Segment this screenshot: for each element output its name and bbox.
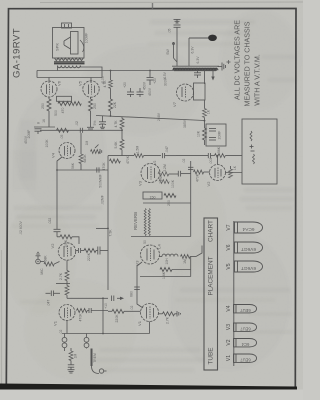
resistor 1M footswitch [69, 348, 78, 365]
svg-text:V3: V3 [226, 324, 232, 330]
wire: long B+ run [37, 70, 217, 72]
svg-text:2.2M: 2.2M [159, 176, 163, 184]
svg-text:.05: .05 [60, 135, 64, 140]
svg-text:268V: 268V [157, 112, 161, 121]
cap 20MF at junction [147, 71, 158, 86]
svg-text:450V: 450V [148, 87, 152, 96]
reverb springs [144, 209, 150, 236]
svg-text:V6: V6 [57, 80, 62, 86]
tube V3 tremolo [138, 164, 161, 186]
resistor 68K input [44, 255, 60, 266]
svg-text:PLACEMENT: PLACEMENT [208, 256, 215, 295]
wire under V6 [34, 126, 55, 128]
svg-text:.003: .003 [209, 158, 213, 165]
svg-text:V5: V5 [78, 80, 83, 86]
line cap .05 600V and ground [166, 19, 181, 66]
tail pot [91, 145, 102, 155]
svg-text:ALL DC VOLTAGES ARE: ALL DC VOLTAGES ARE [234, 20, 242, 100]
wire: plate line over output tubes [37, 77, 102, 79]
cap 680 rail to V1b [130, 262, 144, 308]
resistor 10K [197, 118, 207, 146]
cap in 190.7 rail [188, 167, 193, 169]
chassis arrow [211, 71, 214, 81]
svg-text:100MF: 100MF [85, 33, 89, 44]
V1a plate network 470K [77, 308, 109, 321]
rectifier tube V7 [172, 84, 194, 107]
svg-text:.02: .02 [75, 121, 79, 126]
ground at T1 right [218, 63, 226, 71]
wire: OT secondary to plates [57, 66, 59, 71]
wire into tank (send) [176, 146, 242, 158]
coil L4 [157, 244, 203, 265]
svg-text:V2: V2 [206, 181, 211, 187]
svg-text:+20: +20 [153, 78, 157, 84]
svg-text:16: 16 [42, 119, 46, 123]
screen network box [57, 96, 72, 101]
svg-text:20MF: 20MF [218, 131, 222, 140]
svg-text:6.3V: 6.3V [191, 46, 195, 54]
chart chassis line [233, 221, 235, 366]
tube V5 pill (6V6GT) [235, 261, 263, 272]
svg-text:1K: 1K [233, 165, 237, 170]
tremolo enclosure wires [107, 156, 109, 290]
reverb tank box [242, 119, 277, 184]
svg-text:470K: 470K [79, 313, 83, 322]
wire y311.3 with 220K [108, 309, 141, 322]
svg-text:1/2: 1/2 [153, 161, 157, 166]
svg-text:1K: 1K [207, 109, 211, 114]
svg-text:1M: 1M [183, 259, 187, 264]
svg-text:V7: V7 [226, 224, 232, 230]
svg-text:REVERB: REVERB [133, 212, 138, 230]
wire y115.4 [96, 116, 205, 121]
svg-text:.022: .022 [48, 218, 52, 225]
tube V1b [137, 304, 159, 326]
cathode resistor 1K [226, 166, 243, 178]
svg-text:.02: .02 [182, 159, 186, 164]
svg-text:TUBE: TUBE [208, 347, 215, 364]
pilot lamp [189, 35, 217, 67]
screen resistor 470 ohm [54, 102, 81, 116]
tube V7 pill (6CA4) [235, 222, 263, 233]
resistor 680K [79, 133, 87, 170]
svg-text:.02: .02 [59, 330, 63, 335]
svg-text:6V6GT: 6V6GT [241, 265, 256, 271]
resistor 1.6K [160, 257, 191, 279]
coupling cap .02 [75, 121, 83, 133]
tube placement chart box [204, 218, 218, 370]
svg-text:680: 680 [130, 291, 134, 297]
svg-text:6EU7: 6EU7 [240, 308, 251, 313]
svg-text:2.7K: 2.7K [59, 272, 63, 280]
svg-text:V1: V1 [226, 355, 232, 361]
svg-text:V1: V1 [53, 320, 58, 326]
wire y276.5 [140, 276, 191, 278]
shielded cable to footswitch [92, 349, 107, 374]
svg-text:V5: V5 [226, 263, 232, 269]
svg-text:5.6K: 5.6K [114, 141, 118, 149]
footswitch jack P2 [84, 334, 89, 349]
svg-text:6EU7: 6EU7 [240, 326, 251, 331]
tube V3b reverb driver [135, 245, 160, 265]
power transformer T1 [172, 66, 219, 70]
T1 leads down [197, 71, 199, 73]
box 150 [143, 192, 162, 200]
svg-text:V7: V7 [172, 101, 177, 107]
cap + ground at bottom [68, 365, 75, 373]
wire y298.3 with + cap and chassis arrow [67, 296, 124, 302]
resistor 1K 5W [203, 100, 211, 118]
svg-text:10H: 10H [165, 258, 169, 265]
svg-text:470K: 470K [126, 155, 130, 164]
svg-text:2.2M: 2.2M [163, 164, 167, 172]
speaker symbol [55, 32, 89, 55]
resistor 4.7K on B+ dropper [103, 71, 113, 100]
svg-text:470: 470 [61, 108, 65, 114]
svg-text:100K: 100K [45, 139, 49, 148]
svg-text:V2: V2 [50, 243, 55, 249]
svg-text:SPK: SPK [55, 43, 60, 51]
resistor 22K dropper [109, 99, 118, 116]
svg-text:385V: 385V [183, 119, 187, 128]
svg-text:.02: .02 [130, 306, 134, 311]
note: ALL DC VOLTAGES ARE MEASURED TO CHASSIS WITH A V.T.V.M. [234, 20, 262, 107]
svg-text:.02MF: .02MF [101, 195, 105, 205]
wire x57 down with cap .022 [48, 170, 61, 237]
svg-text:150: 150 [150, 196, 156, 200]
wire y155.6 with 1.5M [108, 146, 161, 158]
svg-text:22K: 22K [113, 101, 117, 108]
speaker SPK box [53, 28, 85, 59]
tube V4 phase inverter [51, 143, 76, 159]
wire y203 [143, 202, 191, 204]
svg-text:CHART: CHART [208, 220, 215, 242]
svg-text:56K: 56K [71, 162, 75, 169]
svg-text:6C4: 6C4 [241, 342, 249, 347]
svg-text:TREM: TREM [93, 353, 97, 363]
svg-text:+10: +10 [104, 303, 108, 309]
svg-text:450V: 450V [24, 135, 28, 144]
V designation labels [226, 224, 232, 361]
svg-text:V3: V3 [138, 180, 143, 186]
heater block [194, 83, 206, 100]
svg-text:SW: SW [166, 48, 170, 54]
svg-text:1M: 1M [74, 353, 78, 358]
svg-text:L4: L4 [157, 244, 162, 249]
svg-text:500MMF: 500MMF [99, 174, 103, 187]
electrolytic caps mid [123, 81, 147, 97]
tube V1a [53, 305, 76, 326]
cap .02 to ground left [99, 116, 106, 129]
svg-text:2.7K: 2.7K [166, 316, 170, 324]
svg-text:470K: 470K [196, 173, 200, 182]
svg-text:56K: 56K [217, 146, 221, 153]
signal wire y170 [57, 169, 108, 171]
svg-text:250: 250 [41, 103, 45, 109]
svg-text:220K: 220K [87, 252, 91, 261]
svg-text:450V: 450V [143, 81, 147, 90]
svg-text:V2: V2 [226, 339, 232, 345]
resistor 100K trem [159, 180, 169, 184]
tube V1 pill (6EU7) [234, 354, 257, 363]
svg-text:.05: .05 [168, 29, 172, 34]
svg-text:500: 500 [54, 110, 58, 116]
cathode network V2 [56, 260, 70, 298]
cathode resistor 250 ohm V5 [87, 97, 97, 129]
tube V6 (6V6GT) [41, 78, 62, 98]
svg-text:6EU7: 6EU7 [240, 357, 251, 362]
svg-text:8: 8 [37, 122, 41, 124]
svg-text:4.7K: 4.7K [114, 120, 118, 128]
cap + at 179 [178, 171, 190, 177]
coupling cap .005 [97, 167, 103, 187]
input jack J1 [36, 252, 45, 274]
cap .047 [162, 146, 176, 158]
grid wire row y130.3 [40, 129, 122, 131]
svg-text:220K: 220K [115, 314, 119, 323]
tube V6 pill (6V6GT) [235, 242, 263, 253]
resistor 100K to V2 grid [57, 235, 79, 248]
svg-text:680K: 680K [83, 154, 87, 163]
junction dots [110, 70, 112, 72]
svg-text:50: 50 [143, 240, 147, 244]
resistor 5.6K [114, 140, 124, 156]
svg-text:MIC: MIC [40, 268, 44, 275]
wire V4 cathode down [57, 157, 62, 170]
svg-text:250: 250 [93, 103, 97, 109]
resistor 470K recovery [194, 170, 210, 182]
scan artifacts [40, 1, 303, 4]
svg-text:7.5K: 7.5K [109, 229, 113, 237]
resistor 2.2M [158, 164, 178, 176]
bottom scan bar [0, 384, 297, 392]
svg-text:.02 600V: .02 600V [19, 220, 23, 234]
svg-text:6V6GT: 6V6GT [241, 246, 256, 252]
svg-text:WITH A V.T.V.M.: WITH A V.T.V.M. [254, 54, 262, 106]
svg-text:.047: .047 [165, 146, 169, 153]
cap .047 left [46, 291, 61, 307]
svg-text:V1: V1 [137, 320, 142, 326]
svg-text:100K: 100K [171, 179, 175, 188]
tube V2 tremolo osc [50, 243, 76, 260]
filter cap can box 20MF 450V [206, 124, 226, 146]
tube V4 pill (6EU7) [234, 305, 257, 314]
plate load cap + 220K [76, 247, 108, 261]
wire: OT to screen line [81, 66, 103, 78]
svg-text:6CA4: 6CA4 [242, 226, 254, 232]
svg-text:1.5M: 1.5M [136, 146, 140, 154]
svg-text:MEASURED TO CHASSIS: MEASURED TO CHASSIS [244, 21, 252, 106]
svg-text:V6: V6 [226, 244, 232, 250]
tube V3 pill (6EU7) [234, 323, 257, 332]
svg-text:68K: 68K [44, 255, 48, 262]
svg-text:1M: 1M [85, 140, 89, 145]
resistor 470K [102, 159, 120, 170]
filter cap 20MF 450V [27, 129, 42, 139]
tube V2 pill (6C4) [234, 339, 257, 348]
cathode resistor 2.7K V1b [159, 311, 181, 324]
svg-text:+20: +20 [123, 82, 127, 88]
resistor 250 [164, 194, 176, 206]
footswitch wiring row [62, 333, 150, 335]
svg-text:GA-19RVT: GA-19RVT [12, 28, 23, 78]
output transformer T2 [54, 58, 85, 68]
tube V5 (6V6GT) [78, 78, 100, 98]
tube V2b reverb recovery [206, 165, 226, 187]
speaker terminal tab [62, 23, 72, 28]
svg-text:1.6K: 1.6K [162, 271, 166, 279]
svg-text:5%: 5% [93, 121, 97, 126]
svg-text:V4: V4 [226, 305, 232, 311]
cathode resistor 250 ohm V6 [41, 97, 51, 127]
svg-text:V4: V4 [51, 152, 56, 158]
resistor 4.7K grid feed [114, 117, 124, 140]
faint bleed-through smudges [12, 20, 296, 372]
resistor 100K [45, 128, 69, 147]
svg-text:6.3V: 6.3V [196, 56, 200, 64]
footswitch jack P1 [62, 334, 67, 352]
plus mark [227, 60, 231, 64]
stub + 7.5K [96, 228, 113, 237]
svg-text:10K: 10K [197, 130, 201, 137]
svg-text:470K: 470K [102, 162, 106, 171]
svg-text:115V: 115V [163, 71, 167, 79]
svg-text:410V: 410V [101, 75, 105, 84]
svg-text:.047: .047 [47, 300, 51, 307]
stray labels [42, 56, 237, 363]
